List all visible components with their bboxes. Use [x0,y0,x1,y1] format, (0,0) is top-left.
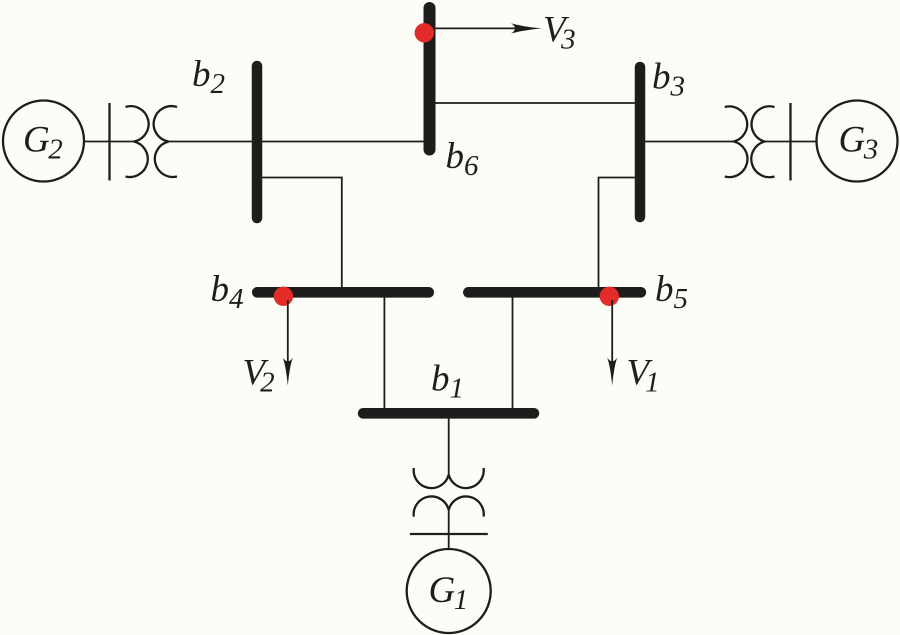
transformer T3 right winding [751,106,774,177]
bus b1 [363,408,534,419]
arrow V2 from bus b4 [283,300,293,386]
PMU dot on bus b6 [415,23,434,42]
transformer T1 tick [410,533,488,535]
wire bus b3 branch down to bus b5 [599,178,636,293]
generator G1 circle [407,549,491,633]
wire bus b6 to bus b3 [430,102,641,104]
bus b5 [468,287,640,298]
wire bus b2 to bus b6 [257,141,424,143]
wire bus b2 branch down to bus b4 [262,178,342,293]
transformer T1 top winding [414,468,484,488]
generator G2 circle [3,101,84,182]
transformer T2 right winding [154,106,177,177]
PMU dot on bus b4 [274,287,293,306]
arrow V3 from bus b6 [436,23,542,33]
bus b4 [257,287,428,298]
arrow V1 from bus b5 [607,300,617,386]
wire G2 to transformer T2 [84,141,134,143]
wire bus b5 down to bus b1 [512,297,514,409]
PMU dot on bus b5 [600,287,619,306]
transformer T3 tick [789,103,791,181]
generator G3 circle [817,101,898,182]
transformer T2 left winding [126,106,149,177]
wire transformer T3 to G3 [765,141,817,143]
bus b3 [635,67,646,217]
transformer T3 left winding [725,106,748,177]
wire transformer T1 to G1 [448,510,450,549]
transformer T1 bottom winding [414,496,484,516]
wire bus b1 down to transformer T1 [448,413,450,474]
transformer T2 tick [108,103,110,181]
bus b2 [252,66,263,218]
wire bus b3 to transformer T3 [640,141,734,143]
bus b6 [424,8,436,150]
wire transformer T2 to bus b2 [169,141,257,143]
wire bus b4 down to bus b1 [383,297,385,409]
